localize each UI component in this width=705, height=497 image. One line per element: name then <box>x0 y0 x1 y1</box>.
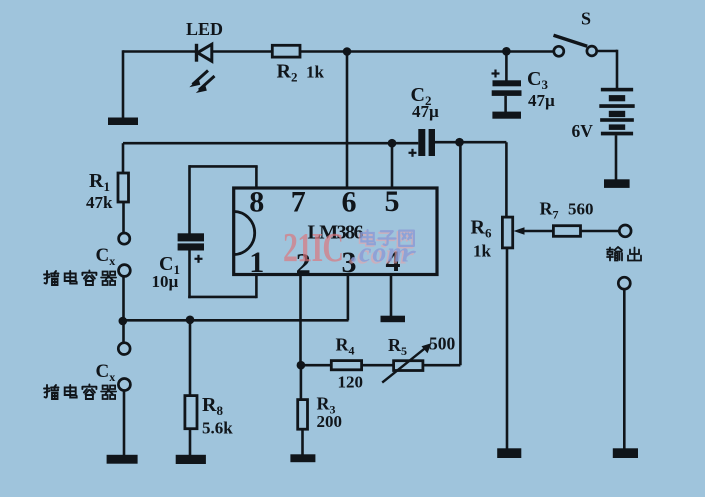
R7 label <box>540 199 559 222</box>
pin 4 <box>386 245 401 278</box>
svg-text:.com: .com <box>351 238 410 269</box>
wire rail to pin 6 <box>346 52 349 189</box>
terminal output top <box>619 225 631 237</box>
wire node to R8 <box>189 320 192 396</box>
R2 label <box>277 61 298 85</box>
S label <box>581 9 591 29</box>
resistor R8 <box>185 396 197 429</box>
C1 polarity + <box>195 255 203 263</box>
terminal Cx2 top <box>118 343 130 355</box>
node pin2/R4/R3 <box>297 361 306 370</box>
ground (LED branch) <box>108 50 138 125</box>
wire R1 to terminal <box>122 202 125 233</box>
R6 value 1k <box>473 242 492 261</box>
svg-text:LED: LED <box>186 19 223 39</box>
pin 8 <box>249 186 264 219</box>
battery B1 6V <box>599 88 634 136</box>
ground (battery) <box>604 179 630 188</box>
resistor R7 <box>553 226 580 237</box>
wire R5 to C2 node <box>423 142 461 365</box>
wire pin 5 riser <box>391 143 394 188</box>
svg-text:8: 8 <box>249 186 264 219</box>
R4 value 120 <box>338 373 364 392</box>
wire Cx2 to ground <box>123 391 126 456</box>
capacitor C3 <box>492 80 522 112</box>
wire R2 to switch <box>300 50 554 53</box>
U1 label LM386 <box>308 222 364 244</box>
wire Cx1 to node <box>122 276 125 321</box>
svg-text:47µ: 47µ <box>412 102 439 121</box>
pin 3 <box>342 246 357 279</box>
R3 label <box>317 394 336 417</box>
capacitor C1 <box>178 233 204 250</box>
R5 label <box>388 335 407 358</box>
C2 polarity + <box>409 149 417 157</box>
output caption 输出 <box>607 247 641 261</box>
svg-text:6V: 6V <box>572 121 594 141</box>
wire input bus <box>123 319 349 322</box>
op-amp U1 LM386 body <box>234 188 437 275</box>
wire top rail left <box>123 50 196 53</box>
ground (C3) <box>492 112 521 119</box>
Cx1 caption 插电容器 <box>44 271 116 286</box>
R8 label <box>202 394 223 418</box>
svg-text:500: 500 <box>429 334 456 354</box>
svg-text:7: 7 <box>291 186 306 219</box>
svg-text:21IC: 21IC <box>283 224 343 270</box>
svg-text:1: 1 <box>249 246 264 279</box>
wire C1 to pin 1 <box>188 251 256 299</box>
resistor R4 <box>331 361 361 370</box>
svg-text:6: 6 <box>342 186 357 219</box>
wire rail to C3 <box>505 51 508 81</box>
node R8 junction <box>186 316 195 325</box>
wire output to ground <box>623 289 626 449</box>
R7 value 560 <box>568 200 594 219</box>
wire node to R4 <box>301 364 331 367</box>
ground (R6) <box>497 448 521 458</box>
LED D1 <box>189 44 214 93</box>
C3 label <box>527 68 548 92</box>
node C3 rail junction <box>502 47 511 56</box>
watermark <box>283 224 416 270</box>
wire node to Cx2 <box>122 321 125 343</box>
svg-text:1k: 1k <box>306 63 325 82</box>
wire battery to ground <box>615 135 618 180</box>
C1 label <box>159 253 180 277</box>
potentiometer R6 <box>502 217 553 248</box>
R2 value 1k <box>306 63 325 82</box>
wire R3 to ground <box>301 429 304 455</box>
svg-text:120: 120 <box>338 373 364 392</box>
wire LED to R2 <box>212 50 273 53</box>
svg-text:5: 5 <box>385 185 400 218</box>
resistor R2 <box>272 45 300 57</box>
wire pin 4 down <box>390 275 393 317</box>
svg-text:5.6k: 5.6k <box>202 419 233 438</box>
Cx2 caption 插电容器 <box>44 385 116 400</box>
R4 label <box>336 335 355 358</box>
node C2/R5 junction <box>455 138 464 147</box>
terminal Cx1 top <box>119 233 130 244</box>
ground (output) <box>613 448 638 458</box>
wire pin 8 to C1 <box>190 165 258 234</box>
wire C2 to R6 <box>435 142 506 217</box>
6V label <box>572 121 594 141</box>
wire R8 to ground <box>189 429 192 456</box>
R8 value 5.6k <box>202 419 233 438</box>
wire R4 to R5 <box>362 364 394 367</box>
wire R7 to output <box>581 230 620 233</box>
pin 1 <box>249 246 264 279</box>
C3 polarity + <box>492 70 500 78</box>
svg-text:47k: 47k <box>86 193 113 212</box>
node pin6 rail junction <box>343 47 352 56</box>
pin 5 <box>385 185 400 218</box>
svg-text:200: 200 <box>317 412 343 431</box>
C3 value 47µ <box>528 91 555 110</box>
wire R6 to ground <box>506 248 509 449</box>
svg-text:1k: 1k <box>473 242 492 261</box>
C2 label <box>411 84 432 108</box>
resistor R1 <box>118 173 129 202</box>
switch S <box>554 35 597 56</box>
resistor R3 <box>298 400 308 430</box>
pin 2 <box>296 248 311 281</box>
R1 label <box>89 170 110 194</box>
svg-text:560: 560 <box>568 200 594 219</box>
R6 label <box>471 217 492 241</box>
terminal Cx2 bottom <box>118 379 130 391</box>
terminal output bottom <box>618 277 630 289</box>
pin 6 <box>342 186 357 219</box>
node Cx junction <box>119 317 128 326</box>
svg-text:10µ: 10µ <box>152 272 179 291</box>
node pin5 junction <box>388 139 397 148</box>
wire pin 2 down <box>299 275 302 366</box>
terminal Cx1 bottom <box>119 265 131 277</box>
svg-text:S: S <box>581 9 591 29</box>
wire node to R3 <box>300 365 303 400</box>
capacitor C2 <box>418 129 435 156</box>
wire to R1 <box>122 143 125 173</box>
ground (pin 4) <box>381 316 406 323</box>
R3 value 200 <box>317 412 343 431</box>
Cx2 label <box>96 361 116 384</box>
wire R1/pin5 to C2 <box>123 142 418 145</box>
C1 value 10µ <box>152 272 179 291</box>
C2 value 47µ <box>412 102 439 121</box>
ground (R3) <box>290 454 315 462</box>
LED label <box>186 19 223 39</box>
Cx1 label <box>96 245 116 268</box>
rheostat R5 <box>382 343 431 383</box>
ground (Cx2) <box>107 455 138 464</box>
R5 value 500 <box>429 334 456 354</box>
wire pin 3 riser <box>347 275 350 321</box>
wire switch to battery <box>597 50 617 89</box>
R1 value 47k <box>86 193 113 212</box>
ground (R8) <box>176 455 206 464</box>
svg-text:47µ: 47µ <box>528 91 555 110</box>
pin 7 <box>291 186 306 219</box>
